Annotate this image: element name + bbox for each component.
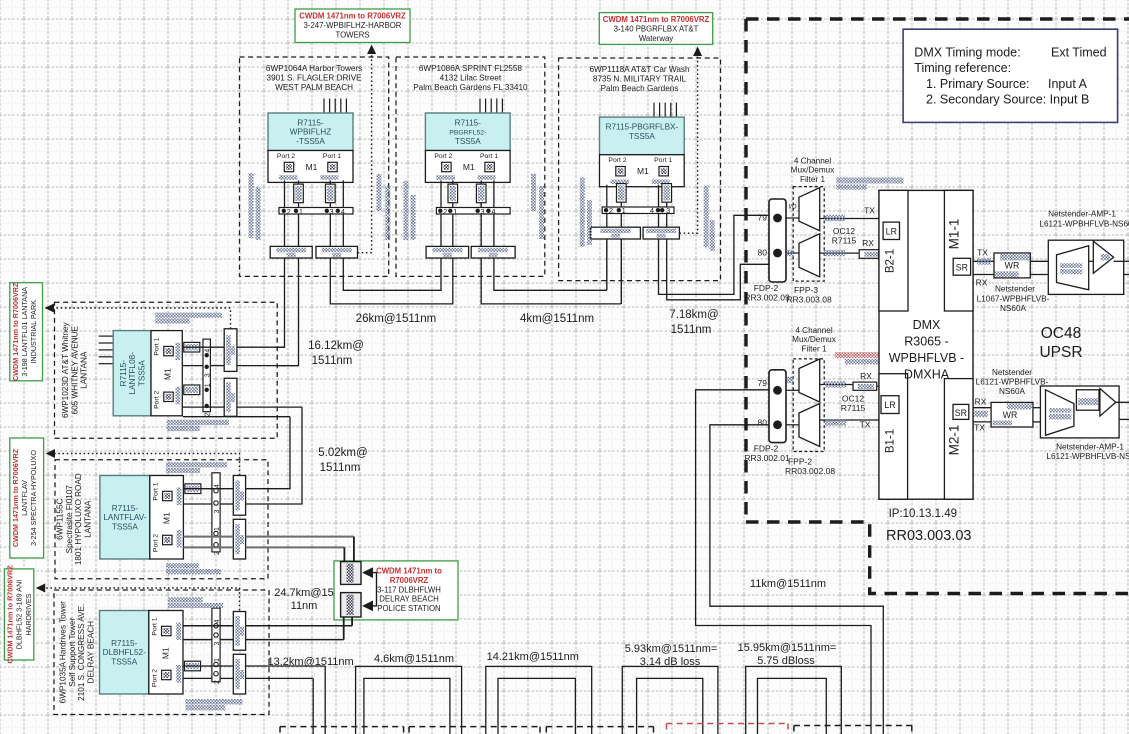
svg-text:16.12km@: 16.12km@	[308, 340, 364, 352]
svg-text:OC48: OC48	[1041, 325, 1082, 342]
svg-text:DMX: DMX	[913, 318, 941, 332]
svg-text:M1: M1	[163, 368, 173, 380]
svg-text:4 Channel: 4 Channel	[795, 326, 833, 335]
svg-text:6WP1086A SPRINT FL2558: 6WP1086A SPRINT FL2558	[419, 64, 523, 73]
svg-text:LR: LR	[886, 227, 897, 237]
svg-text:RR3.003.08: RR3.003.08	[786, 295, 832, 305]
svg-text:TX: TX	[864, 206, 875, 216]
svg-text:3: 3	[214, 509, 221, 513]
svg-text:Port 2: Port 2	[151, 669, 158, 687]
svg-text:CWDM 1471nm to: CWDM 1471nm to	[376, 567, 442, 576]
svg-text:1511nm: 1511nm	[312, 355, 353, 367]
svg-text:B1-1: B1-1	[885, 429, 897, 453]
svg-text:1511nm: 1511nm	[320, 462, 361, 474]
svg-text:4: 4	[650, 206, 654, 215]
svg-text:80: 80	[758, 248, 768, 258]
svg-text:SR: SR	[956, 263, 968, 273]
svg-text:DMX Timing mode:: DMX Timing mode:	[914, 46, 1020, 60]
svg-text:L6121-WPBHFLVB-: L6121-WPBHFLVB-	[976, 378, 1049, 387]
svg-text:RR3.002.01: RR3.002.01	[744, 453, 790, 463]
svg-text:R7006VRZ: R7006VRZ	[390, 576, 429, 585]
svg-text:1801 HYPOLUXO ROAD: 1801 HYPOLUXO ROAD	[74, 473, 83, 565]
svg-text:WR: WR	[1005, 261, 1020, 271]
svg-text:1511nm: 1511nm	[671, 324, 712, 336]
svg-text:1: 1	[622, 206, 626, 215]
svg-text:DLBHFL52 3-189 ANI: DLBHFL52 3-189 ANI	[15, 580, 24, 650]
svg-text:Netstender-AMP-1: Netstender-AMP-1	[1056, 443, 1124, 452]
svg-text:TSS5A: TSS5A	[455, 137, 481, 146]
svg-text:Spectrasite Fl0107: Spectrasite Fl0107	[65, 485, 74, 554]
svg-text:L1067-WPBHFLVB-: L1067-WPBHFLVB-	[977, 295, 1050, 304]
svg-text:Ext Timed: Ext Timed	[1051, 46, 1107, 60]
svg-text:TSS5A: TSS5A	[112, 523, 138, 532]
svg-text:4: 4	[214, 619, 221, 623]
svg-text:TOWERS: TOWERS	[335, 30, 369, 39]
svg-text:3901 S. FLAGLER DRIVE: 3901 S. FLAGLER DRIVE	[267, 74, 363, 83]
svg-text:1: 1	[299, 207, 303, 216]
svg-text:Port 2: Port 2	[277, 153, 295, 160]
svg-text:CWDM 1471nm to R7006VRZ: CWDM 1471nm to R7006VRZ	[299, 12, 406, 21]
svg-text:6WP1155C: 6WP1155C	[56, 498, 65, 539]
svg-text:4: 4	[205, 349, 212, 353]
svg-text:11km@1511nm: 11km@1511nm	[750, 578, 826, 590]
svg-text:3-140 PBGRFLBX AT&T: 3-140 PBGRFLBX AT&T	[614, 25, 699, 34]
svg-text:HARDRIVES: HARDRIVES	[24, 593, 33, 635]
svg-text:TSS5A: TSS5A	[629, 132, 655, 141]
svg-text:R7115-: R7115-	[297, 119, 324, 128]
svg-text:6WP1064A Harbor Towers: 6WP1064A Harbor Towers	[266, 64, 362, 73]
svg-text:3: 3	[329, 207, 333, 216]
svg-text:Self Support Tower: Self Support Tower	[68, 617, 77, 686]
svg-text:B2-1: B2-1	[885, 249, 897, 273]
svg-text:2: 2	[214, 551, 221, 555]
svg-text:WEST PALM BEACH: WEST PALM BEACH	[275, 83, 353, 92]
svg-text:3-117 DLBHFLWH: 3-117 DLBHFLWH	[377, 585, 441, 594]
svg-text:13.2km@1511nm: 13.2km@1511nm	[268, 656, 354, 668]
svg-text:4km@1511nm: 4km@1511nm	[520, 313, 594, 325]
svg-text:R7115-: R7115-	[112, 504, 139, 513]
svg-text:RR3.002.09: RR3.002.09	[744, 293, 790, 303]
svg-text:Port 1: Port 1	[654, 157, 672, 164]
svg-text:UPSR: UPSR	[1039, 344, 1082, 361]
svg-text:M1: M1	[637, 166, 649, 176]
svg-text:RX: RX	[862, 238, 874, 248]
svg-text:80: 80	[758, 418, 768, 428]
svg-text:SR: SR	[955, 408, 967, 418]
svg-text:6WP1035A Hardrives Tower: 6WP1035A Hardrives Tower	[59, 601, 68, 704]
svg-text:WR: WR	[1003, 410, 1018, 420]
svg-text:2: 2	[205, 412, 212, 416]
svg-text:1: 1	[453, 207, 457, 216]
svg-text:TSS5A: TSS5A	[111, 658, 137, 667]
svg-text:R7115-: R7115-	[455, 119, 482, 128]
svg-text:3: 3	[666, 206, 670, 215]
svg-text:DMXHA: DMXHA	[904, 368, 950, 382]
svg-text:LANTFLAV: LANTFLAV	[20, 480, 29, 516]
svg-text:CWDM 1471nm to R7006VRZ: CWDM 1471nm to R7006VRZ	[11, 282, 20, 381]
svg-text:Port 1: Port 1	[151, 617, 158, 635]
svg-text:15.95km@1511nm=: 15.95km@1511nm=	[738, 642, 837, 654]
svg-text:M1-1: M1-1	[947, 219, 962, 250]
svg-text:Input A: Input A	[1048, 77, 1088, 91]
svg-text:L6121-WPBHFLVB-NS60: L6121-WPBHFLVB-NS60	[1039, 220, 1129, 229]
svg-text:8735 N. MILITARY TRAIL: 8735 N. MILITARY TRAIL	[593, 75, 687, 84]
svg-text:M2-1: M2-1	[947, 425, 962, 456]
svg-text:4: 4	[491, 207, 495, 216]
svg-text:R7115-PBGRFLBX-: R7115-PBGRFLBX-	[606, 123, 679, 132]
svg-text:M1: M1	[161, 512, 171, 524]
svg-text:1: 1	[205, 383, 212, 387]
svg-text:L6121-WPBHFLVB-NS60: L6121-WPBHFLVB-NS60	[1046, 452, 1129, 461]
svg-text:LR: LR	[884, 400, 895, 410]
svg-text:LANTANA: LANTANA	[83, 500, 92, 538]
svg-text:4132 Lilac Street: 4132 Lilac Street	[440, 74, 502, 83]
svg-text:M1: M1	[306, 162, 318, 172]
svg-text:LANTFLAV-: LANTFLAV-	[103, 513, 146, 522]
svg-text:LANTANA: LANTANA	[80, 351, 89, 389]
svg-text:TX: TX	[860, 420, 871, 430]
svg-text:Port 1: Port 1	[152, 482, 159, 500]
svg-text:79: 79	[758, 378, 768, 388]
svg-text:6WP1118A AT&T Car Wash: 6WP1118A AT&T Car Wash	[589, 65, 690, 74]
svg-text:Port 2: Port 2	[434, 153, 452, 160]
svg-text:2: 2	[443, 207, 447, 216]
svg-text:Filter 1: Filter 1	[800, 175, 825, 184]
svg-text:LANTFL08-: LANTFL08-	[128, 352, 137, 395]
svg-text:WPBHFLVB -: WPBHFLVB -	[889, 351, 964, 365]
svg-text:2: 2	[609, 206, 613, 215]
svg-text:11nm: 11nm	[291, 600, 318, 612]
svg-text:FPP-3: FPP-3	[794, 285, 818, 295]
svg-text:M1: M1	[463, 162, 475, 172]
svg-text:1: 1	[214, 527, 221, 531]
svg-text:Port 2: Port 2	[608, 157, 626, 164]
svg-text:Port 1: Port 1	[323, 153, 341, 160]
svg-text:14.21km@1511nm: 14.21km@1511nm	[487, 651, 579, 663]
svg-text:4: 4	[341, 207, 345, 216]
svg-text:Filter 1: Filter 1	[801, 344, 826, 353]
svg-text:3-247-WPBIFLHZ-HARBOR: 3-247-WPBIFLHZ-HARBOR	[304, 21, 402, 30]
svg-text:Timing reference:: Timing reference:	[914, 61, 1011, 75]
svg-text:2: 2	[287, 207, 291, 216]
svg-text:3-198 LANTFL01 LANTANA: 3-198 LANTFL01 LANTANA	[20, 287, 29, 377]
svg-text:3-254 SPECTRA HYPOLUXO: 3-254 SPECTRA HYPOLUXO	[29, 450, 38, 546]
svg-text:2: 2	[214, 680, 221, 684]
svg-text:5.02km@: 5.02km@	[318, 447, 367, 459]
svg-text:Mux/Demux: Mux/Demux	[791, 166, 835, 175]
svg-text:FDP-2: FDP-2	[754, 444, 779, 454]
svg-text:OC12: OC12	[842, 394, 864, 404]
svg-text:2. Secondary Source: Input B: 2. Secondary Source: Input B	[926, 93, 1089, 107]
svg-text:3: 3	[205, 373, 212, 377]
svg-text:RX: RX	[976, 278, 988, 288]
svg-text:RR03.002.08: RR03.002.08	[785, 466, 835, 476]
svg-text:26km@1511nm: 26km@1511nm	[356, 313, 437, 325]
svg-text:INDUSTRIAL PARK: INDUSTRIAL PARK	[29, 300, 38, 364]
svg-text:Netstender-AMP-1: Netstender-AMP-1	[1048, 210, 1116, 219]
svg-text:OC12: OC12	[833, 226, 855, 236]
svg-text:4.6km@1511nm: 4.6km@1511nm	[374, 653, 454, 665]
svg-text:1: 1	[214, 658, 221, 662]
svg-text:R7115-: R7115-	[111, 639, 138, 648]
svg-text:R7115: R7115	[832, 236, 857, 246]
svg-text:1. Primary Source:: 1. Primary Source:	[926, 77, 1030, 91]
svg-text:I/O: I/O	[788, 205, 796, 211]
svg-text:-TSS5A: -TSS5A	[296, 137, 325, 146]
svg-text:TX: TX	[974, 423, 985, 433]
svg-text:6WP1023D AT&T Whitney: 6WP1023D AT&T Whitney	[61, 321, 70, 418]
svg-text:RR03.003.03: RR03.003.03	[886, 528, 971, 544]
svg-text:RX: RX	[860, 371, 872, 381]
svg-text:TSS5A: TSS5A	[137, 360, 146, 386]
svg-text:24.7km@15: 24.7km@15	[274, 587, 333, 599]
svg-text:FPP-2: FPP-2	[788, 457, 812, 467]
svg-text:NS60A: NS60A	[1000, 304, 1026, 313]
svg-text:Netstender: Netstender	[995, 285, 1035, 294]
svg-text:2101 S. CONGRESS AVE.: 2101 S. CONGRESS AVE.	[77, 604, 86, 701]
svg-text:605 WHITNEY AVENUE: 605 WHITNEY AVENUE	[70, 325, 79, 414]
svg-text:4 Channel: 4 Channel	[794, 157, 832, 166]
svg-text:RX: RX	[975, 397, 987, 407]
svg-text:Palm Beach Gardens FL 33410: Palm Beach Gardens FL 33410	[413, 83, 528, 92]
svg-text:3.14 dB loss: 3.14 dB loss	[640, 656, 701, 668]
svg-text:DELRAY BEACH: DELRAY BEACH	[379, 595, 439, 604]
svg-text:Port 1: Port 1	[480, 153, 498, 160]
svg-text:R7115-: R7115-	[119, 360, 128, 387]
svg-text:POLICE STATION: POLICE STATION	[377, 604, 440, 613]
svg-text:FDP-2: FDP-2	[754, 283, 779, 293]
svg-text:Netstender: Netstender	[992, 368, 1032, 377]
svg-text:Palm Beach Gardens: Palm Beach Gardens	[601, 84, 679, 93]
svg-text:DLBHFL52-: DLBHFL52-	[103, 648, 147, 657]
svg-text:5.93km@1511nm=: 5.93km@1511nm=	[625, 643, 718, 655]
svg-text:3: 3	[480, 207, 484, 216]
svg-text:IP:10.13.1.49: IP:10.13.1.49	[889, 508, 957, 520]
svg-text:4: 4	[214, 484, 221, 488]
svg-text:Mux/Demux: Mux/Demux	[792, 335, 836, 344]
svg-text:M1: M1	[160, 647, 170, 659]
svg-text:CWDM 1471nm to R7006VRZ: CWDM 1471nm to R7006VRZ	[11, 448, 20, 547]
svg-text:Waterway: Waterway	[639, 34, 673, 43]
svg-text:Port 2: Port 2	[152, 534, 159, 552]
svg-text:Port 2: Port 2	[154, 391, 161, 409]
svg-text:CWDM 1471nm to R7006VRZ: CWDM 1471nm to R7006VRZ	[603, 15, 710, 24]
svg-text:DELRAY BEACH: DELRAY BEACH	[86, 621, 95, 684]
svg-text:R7115: R7115	[841, 403, 866, 413]
svg-text:7.18km@: 7.18km@	[669, 309, 718, 321]
svg-text:79: 79	[758, 213, 768, 223]
svg-text:PBGRFL52-: PBGRFL52-	[449, 130, 486, 137]
svg-text:3: 3	[214, 641, 221, 645]
svg-text:WPBIFLHZ: WPBIFLHZ	[290, 128, 331, 137]
svg-text:TX: TX	[977, 248, 988, 258]
svg-text:5.75 dBloss: 5.75 dBloss	[757, 655, 815, 667]
svg-text:Port 1: Port 1	[154, 337, 161, 355]
svg-text:CWDM 1471nm to R7006VRZ: CWDM 1471nm to R7006VRZ	[5, 565, 14, 664]
svg-text:NS60A: NS60A	[999, 387, 1025, 396]
svg-text:R3065 -: R3065 -	[904, 335, 948, 349]
